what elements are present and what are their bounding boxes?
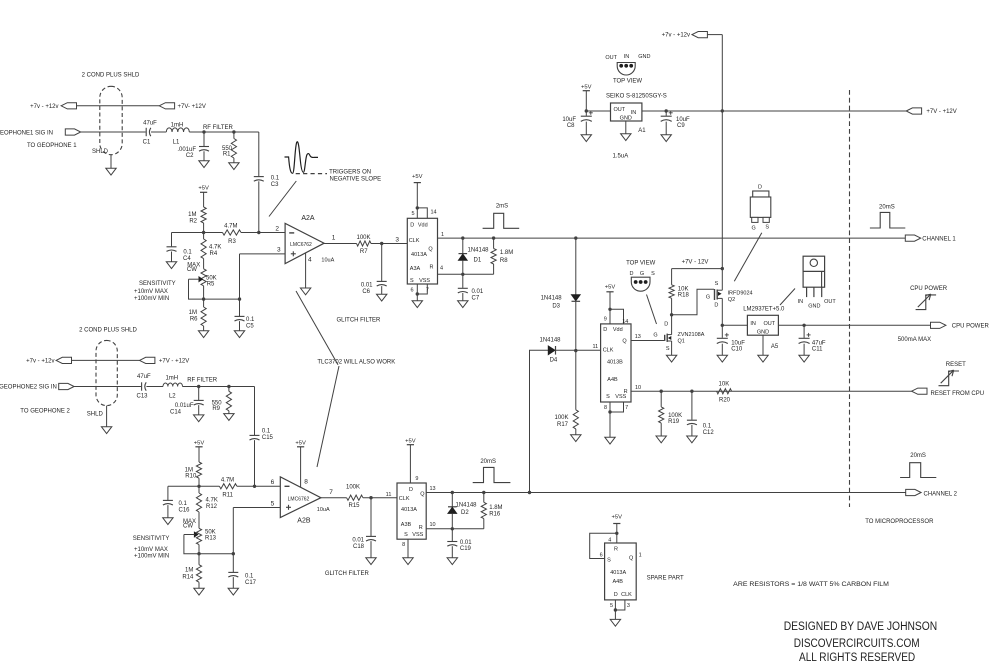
svg-text:L1: L1 <box>173 140 180 146</box>
svg-text:D3: D3 <box>552 304 560 310</box>
wire A2B output <box>321 497 347 499</box>
resistor R10 1M <box>185 462 202 486</box>
svg-text:10uF: 10uF <box>562 117 576 123</box>
wire geophone1 signal <box>81 131 146 133</box>
label RF FILTER ch1 <box>203 125 234 131</box>
svg-text:+5V: +5V <box>295 440 306 446</box>
diode D2 1N4148 <box>448 493 477 529</box>
svg-text:A3A: A3A <box>410 266 421 272</box>
label MAX CW ch2 <box>183 519 196 530</box>
wire ch1 power pair <box>77 105 160 107</box>
svg-text:1M: 1M <box>188 212 196 218</box>
edge glyph RESET <box>939 370 960 386</box>
svg-text:0.1: 0.1 <box>262 429 271 435</box>
svg-text:C4: C4 <box>183 256 191 262</box>
svg-text:R8: R8 <box>500 258 508 264</box>
ground C6 <box>377 294 387 301</box>
pin10 label A3B <box>430 522 436 528</box>
svg-text:8: 8 <box>402 542 405 548</box>
pointer line Q2 package <box>734 233 762 282</box>
svg-text:+7V - +12V: +7V - +12V <box>159 358 189 364</box>
note TLC3702 WILL ALSO WORK <box>317 360 395 366</box>
svg-text:5: 5 <box>411 211 414 217</box>
transistor Q1 ZVN2108A <box>653 321 704 352</box>
svg-text:SHLD: SHLD <box>87 411 104 417</box>
svg-text:13: 13 <box>635 334 641 340</box>
svg-text:GND: GND <box>638 54 650 60</box>
ground R9 <box>224 414 234 421</box>
wire to pin 2 <box>259 225 285 232</box>
capacitor C9 10uF <box>661 111 690 135</box>
ground C19 <box>447 558 457 565</box>
svg-text:OUT: OUT <box>824 299 836 305</box>
ground C7 <box>458 301 468 308</box>
svg-text:10uF: 10uF <box>731 340 745 346</box>
ground R19 <box>656 436 666 443</box>
svg-text:GLITCH FILTER: GLITCH FILTER <box>325 571 370 577</box>
svg-text:1.8M: 1.8M <box>500 250 513 256</box>
wire A2A output <box>324 243 356 245</box>
svg-text:1N4148: 1N4148 <box>539 337 561 343</box>
wire to pin 6 <box>255 479 281 486</box>
connector +7V-+12V left (ch1 power) <box>30 103 76 110</box>
node R2/R3 <box>202 231 205 234</box>
svg-text:10K: 10K <box>678 286 689 292</box>
label CPU POWER top <box>910 286 948 292</box>
wire gate bracket Q2 <box>672 289 714 315</box>
svg-text:C1: C1 <box>143 140 151 146</box>
svg-text:Q: Q <box>629 555 634 561</box>
svg-text:0.1: 0.1 <box>703 424 712 430</box>
connector GEOPHONE1 SIG IN <box>0 129 81 136</box>
label 2 COND PLUS SHLD (channel 1 cable) <box>82 73 140 79</box>
svg-text:D: D <box>630 271 634 277</box>
capacitor C16 0.1 <box>163 500 190 517</box>
svg-text:6: 6 <box>600 553 603 559</box>
svg-text:7: 7 <box>625 405 628 411</box>
wire corner to C3 <box>258 132 260 176</box>
potentiometer R13 50K <box>184 528 217 553</box>
wire Q output / CHANNEL1 line <box>438 237 906 239</box>
resistor R11 4.7M <box>199 478 255 499</box>
svg-text:3: 3 <box>277 247 281 254</box>
svg-text:Vdd: Vdd <box>418 222 428 228</box>
IC A3B 4013A body <box>397 483 426 539</box>
svg-text:L2: L2 <box>169 394 176 400</box>
svg-text:C8: C8 <box>567 123 575 129</box>
svg-text:R13: R13 <box>205 536 217 542</box>
svg-text:8: 8 <box>304 479 308 486</box>
svg-text:C3: C3 <box>271 182 279 188</box>
svg-text:VSS: VSS <box>615 394 626 400</box>
svg-text:C11: C11 <box>812 346 823 352</box>
ground C10 <box>717 355 727 362</box>
svg-text:R7: R7 <box>360 249 368 255</box>
svg-text:VSS: VSS <box>412 532 423 538</box>
svg-text:Q: Q <box>622 339 627 345</box>
svg-text:R16: R16 <box>489 511 501 517</box>
svg-text:100K: 100K <box>356 235 370 241</box>
svg-text:C5: C5 <box>246 323 254 329</box>
pointer line A5 package <box>780 289 795 306</box>
svg-text:1: 1 <box>441 232 444 238</box>
resistor R19 100K <box>659 391 664 436</box>
node D3 top <box>574 236 577 239</box>
pin4 ground wire A2A <box>305 253 307 288</box>
node R8 top <box>492 236 495 239</box>
potentiometer R5 50K <box>189 269 217 299</box>
svg-text:OUT: OUT <box>764 321 776 327</box>
svg-text:TO MICROPROCESSOR: TO MICROPROCESSOR <box>865 519 934 525</box>
svg-text:10uF: 10uF <box>676 117 690 123</box>
svg-text:1M: 1M <box>189 310 197 316</box>
ground C2 <box>199 161 209 168</box>
svg-text:G: G <box>653 332 657 338</box>
node R14 <box>197 552 200 555</box>
node A4B Vss <box>608 410 611 413</box>
ground Q1 <box>666 355 676 362</box>
resistor R17 100K <box>554 351 578 435</box>
svg-text:+10mV MAX: +10mV MAX <box>134 547 168 553</box>
svg-text:C7: C7 <box>472 295 480 301</box>
pin1 label spare <box>639 552 642 558</box>
svg-text:D: D <box>410 222 414 228</box>
svg-text:GND: GND <box>808 303 820 309</box>
wire Q output / CHANNEL2 line <box>426 492 906 494</box>
connector CPU POWER <box>931 322 990 329</box>
label TO MICROPROCESSOR <box>865 519 934 525</box>
wire to ground A3A <box>416 294 418 301</box>
label RF FILTER ch2 <box>187 378 218 384</box>
svg-text:GND: GND <box>620 115 632 121</box>
svg-text:+7V- +12V: +7V- +12V <box>178 104 206 110</box>
svg-text:7: 7 <box>329 489 333 496</box>
resistor R2 1M <box>188 207 206 233</box>
svg-text:A3B: A3B <box>401 522 412 528</box>
credit line 3 <box>799 650 915 664</box>
labels Q2 <box>728 290 753 303</box>
node pin2 <box>257 231 260 234</box>
capacitor C10 10uF <box>717 333 745 355</box>
svg-text:3: 3 <box>395 237 399 244</box>
svg-text:10uA: 10uA <box>317 507 330 513</box>
node R10/R11 <box>197 485 200 488</box>
svg-text:0.1: 0.1 <box>271 176 280 182</box>
shield wire ch1 <box>92 149 111 168</box>
svg-text:A2A: A2A <box>301 215 315 222</box>
pin1 label <box>441 232 444 238</box>
svg-text:CHANNEL 2: CHANNEL 2 <box>924 492 958 498</box>
capacitor C15 0.1 <box>250 387 274 487</box>
svg-text:1mH: 1mH <box>165 376 178 382</box>
svg-text:S: S <box>715 281 719 287</box>
svg-text:+10mV MAX: +10mV MAX <box>134 289 168 295</box>
node C17 <box>232 552 235 555</box>
svg-text:R1: R1 <box>223 152 231 158</box>
wire Q1 source to ground <box>671 341 673 355</box>
capacitor C2 .001uF <box>177 132 209 161</box>
ground C5 <box>234 331 244 338</box>
ground A4B <box>605 437 615 444</box>
node rail/SEIKO <box>721 109 724 112</box>
ground C17 <box>228 588 238 595</box>
node spare Vdd <box>615 532 618 535</box>
capacitor C19 0.01 <box>447 529 472 558</box>
wire Q to Q1 gate <box>631 340 664 342</box>
svg-text:R: R <box>614 547 618 553</box>
svg-text:47uF: 47uF <box>143 121 157 127</box>
ground R1 <box>229 163 239 170</box>
package top view A1 <box>605 54 650 85</box>
svg-text:1mH: 1mH <box>171 123 184 129</box>
wire R pin reset line <box>631 390 912 392</box>
capacitor C12 0.1 <box>687 391 714 436</box>
svg-text:1: 1 <box>332 235 336 242</box>
svg-text:R10: R10 <box>185 474 197 480</box>
wire L2 to corner <box>183 386 255 388</box>
svg-text:CLK: CLK <box>399 496 410 502</box>
ground C14 <box>194 415 204 422</box>
svg-text:4013A: 4013A <box>610 570 626 576</box>
wire rail to A5 in <box>722 324 747 326</box>
svg-text:TO GEOPHONE 2: TO GEOPHONE 2 <box>20 408 70 414</box>
svg-text:+7v - +12v: +7v - +12v <box>26 358 54 364</box>
resistor R18 10K <box>669 269 689 315</box>
wire R15 to CLK <box>363 492 397 498</box>
svg-text:Q: Q <box>420 492 425 498</box>
ground R14 <box>194 588 204 595</box>
svg-text:D4: D4 <box>550 357 558 363</box>
resistor R16 1.8M <box>481 493 502 529</box>
node D3/R17/CLK <box>574 349 577 352</box>
pointer line TLC3702 lower <box>317 366 339 467</box>
svg-text:+5V: +5V <box>198 186 209 192</box>
capacitor C4 0.1 <box>167 247 193 262</box>
wire +7V rail <box>708 35 723 338</box>
label SEIKO S-81250SGY-S <box>606 93 667 99</box>
+5V supply A3A <box>412 174 423 208</box>
pin13 label A3B <box>430 486 436 492</box>
svg-text:4: 4 <box>308 257 312 264</box>
+5V supply R2 <box>198 186 209 207</box>
wire C13-L2 <box>146 386 163 388</box>
svg-text:LMC6762: LMC6762 <box>290 242 312 248</box>
svg-text:8: 8 <box>604 405 607 411</box>
resistor R20 10K <box>717 382 732 404</box>
svg-text:1N4148: 1N4148 <box>541 295 563 301</box>
pin loop 5-3 spare <box>610 600 630 610</box>
svg-text:G: G <box>752 225 756 231</box>
svg-text:11: 11 <box>386 492 392 498</box>
IC A4B 4013B body <box>601 324 631 402</box>
svg-text:2mS: 2mS <box>496 204 508 210</box>
svg-text:D: D <box>614 592 618 598</box>
ground shield ch1 <box>106 168 116 175</box>
svg-text:0.1: 0.1 <box>246 317 255 323</box>
resistor R15 100K <box>346 484 363 509</box>
node R6 <box>202 297 205 300</box>
svg-text:0.01: 0.01 <box>472 289 484 295</box>
capacitor C5 0.1 <box>235 299 256 331</box>
svg-text:VSS: VSS <box>419 278 430 284</box>
svg-text:+7v - +12v: +7v - +12v <box>662 32 690 38</box>
wire to ground spare <box>614 610 616 619</box>
connector +7V-+12V right (ch1 power) <box>159 103 206 110</box>
credit line 1 <box>784 619 938 633</box>
svg-text:0.1: 0.1 <box>179 501 188 507</box>
svg-text:D: D <box>409 487 413 493</box>
+5V supply R10 <box>194 440 205 462</box>
capacitor C14 0.01uF <box>170 387 204 416</box>
label SENSITIVITY ch1 <box>134 281 176 302</box>
svg-text:IN: IN <box>624 54 630 60</box>
svg-text:100K: 100K <box>346 484 360 490</box>
svg-text:S: S <box>765 225 769 231</box>
ground C16 <box>163 518 173 525</box>
svg-text:9: 9 <box>415 476 418 482</box>
svg-text:LM2937ET+5.0: LM2937ET+5.0 <box>743 307 785 313</box>
svg-text:1.5uA: 1.5uA <box>613 153 629 159</box>
svg-text:D: D <box>603 327 607 333</box>
ground A3A <box>412 301 422 308</box>
wire L1 to corner <box>189 131 258 133</box>
node A4B Vdd <box>608 308 611 311</box>
svg-text:NEGATIVE SLOPE: NEGATIVE SLOPE <box>330 177 382 183</box>
svg-text:20mS: 20mS <box>910 453 926 459</box>
svg-text:C13: C13 <box>136 394 148 400</box>
pin6 label spare <box>600 553 603 559</box>
svg-text:ALL RIGHTS RESERVED: ALL RIGHTS RESERVED <box>799 650 915 664</box>
op-amp A2B LMC6762 <box>280 477 333 525</box>
svg-text:3: 3 <box>627 603 630 609</box>
svg-text:A5: A5 <box>771 344 779 350</box>
package top view Q2 <box>750 185 771 232</box>
svg-text:1N4148: 1N4148 <box>468 248 490 254</box>
cable shield oval CH2 <box>96 340 117 405</box>
svg-text:.001uF: .001uF <box>177 147 196 153</box>
wire SEIKO out <box>586 110 610 112</box>
pulse symbol 2mS ch1 <box>483 204 520 229</box>
node R9 <box>227 385 230 388</box>
svg-text:S: S <box>606 394 610 400</box>
wire A3B R pin <box>426 528 484 530</box>
svg-text:R15: R15 <box>348 503 360 509</box>
pulse symbol 20mS A3B <box>473 459 511 483</box>
capacitor C18 0.01 <box>352 498 376 558</box>
svg-text:LMC6762: LMC6762 <box>288 496 310 502</box>
ground C8 <box>581 135 591 142</box>
pin10 label <box>635 385 641 391</box>
svg-text:RF FILTER: RF FILTER <box>187 378 218 384</box>
svg-text:CLK: CLK <box>409 238 420 244</box>
svg-text:R3: R3 <box>228 239 236 245</box>
svg-text:R18: R18 <box>678 293 690 299</box>
resistor R8 1.8M <box>491 238 513 274</box>
+5V supply spare <box>612 514 623 533</box>
svg-text:0.01: 0.01 <box>361 282 373 288</box>
svg-text:SENSITIVITY: SENSITIVITY <box>139 281 176 287</box>
svg-text:CW: CW <box>183 524 193 530</box>
label TRIGGERS ON NEGATIVE SLOPE <box>329 169 381 182</box>
inductor L1 1mH <box>166 123 189 146</box>
wire channel2 feedback vertical <box>530 350 549 492</box>
svg-text:20mS: 20mS <box>879 204 895 210</box>
label GLITCH FILTER ch2 <box>325 571 370 577</box>
label SENSITIVITY ch2 <box>133 536 170 560</box>
svg-text:D: D <box>758 185 762 191</box>
svg-text:C6: C6 <box>362 289 370 295</box>
S pin ground A3B <box>402 539 408 558</box>
wire SEIKO in to rail <box>642 110 906 112</box>
node C12 <box>690 390 693 393</box>
svg-text:R6: R6 <box>190 316 198 322</box>
pot wiper bracket ch1 <box>189 279 240 299</box>
node D1 top <box>461 236 464 239</box>
connector CHANNEL 2 <box>906 489 958 497</box>
svg-text:1: 1 <box>639 552 642 558</box>
svg-text:R5: R5 <box>207 281 215 287</box>
svg-text:S: S <box>666 346 670 352</box>
ground C9 <box>661 135 671 142</box>
svg-text:+5V: +5V <box>612 514 623 520</box>
svg-text:A2B: A2B <box>297 517 311 524</box>
diode D3 1N4148 <box>541 238 581 351</box>
ground A2A <box>300 288 310 295</box>
connector +7V-+12V right <box>906 108 957 115</box>
svg-text:ARE RESISTORS = 1/8 WATT 5%: ARE RESISTORS = 1/8 WATT 5% CARBON FILM <box>733 581 889 588</box>
svg-text:OUT: OUT <box>614 107 626 113</box>
wire node to C16 <box>168 486 199 500</box>
pin loop 6-7 A3A <box>410 284 429 294</box>
svg-text:TOP VIEW: TOP VIEW <box>613 78 642 84</box>
node R19 <box>660 390 663 393</box>
wire pin5 <box>233 500 280 553</box>
svg-text:Q: Q <box>428 247 433 253</box>
svg-text:4013B: 4013B <box>607 359 623 365</box>
svg-text:OUT: OUT <box>605 55 617 61</box>
svg-text:+7V - 12V: +7V - 12V <box>682 260 709 266</box>
package TO-220 A5 <box>798 256 837 309</box>
node rail/LM2937 <box>721 324 724 327</box>
svg-text:4013A: 4013A <box>411 252 427 258</box>
svg-text:G: G <box>640 271 644 277</box>
svg-text:CW: CW <box>187 267 197 273</box>
svg-text:S: S <box>410 278 414 284</box>
op-amp A2A LMC6762 <box>285 215 336 264</box>
pin4 stub spare <box>608 533 617 543</box>
label 500mA MAX <box>898 337 931 343</box>
node D2/R <box>451 527 454 530</box>
svg-text:GEOPHONE1 SIG IN: GEOPHONE1 SIG IN <box>0 130 53 136</box>
svg-text:ZVN2108A: ZVN2108A <box>678 332 705 338</box>
svg-text:14: 14 <box>431 210 437 216</box>
capacitor C7 0.01 <box>458 274 484 301</box>
diode D1 1N4148 <box>459 238 490 274</box>
node C11 <box>802 324 805 327</box>
ground R6 <box>198 331 208 338</box>
svg-text:SPARE PART: SPARE PART <box>647 576 684 582</box>
node C8 <box>585 109 588 112</box>
resistor R7 100K <box>356 235 371 255</box>
connector +7V-+12V top <box>662 32 708 39</box>
pin loop 8-7 A4B <box>604 402 628 412</box>
pin8 +5V A2B <box>295 440 306 487</box>
wire node to C4 <box>172 233 204 247</box>
svg-text:4.7M: 4.7M <box>224 223 237 229</box>
wire pin3 <box>240 247 286 300</box>
bracket spare R-S <box>590 533 617 558</box>
svg-text:10uA: 10uA <box>321 257 334 263</box>
